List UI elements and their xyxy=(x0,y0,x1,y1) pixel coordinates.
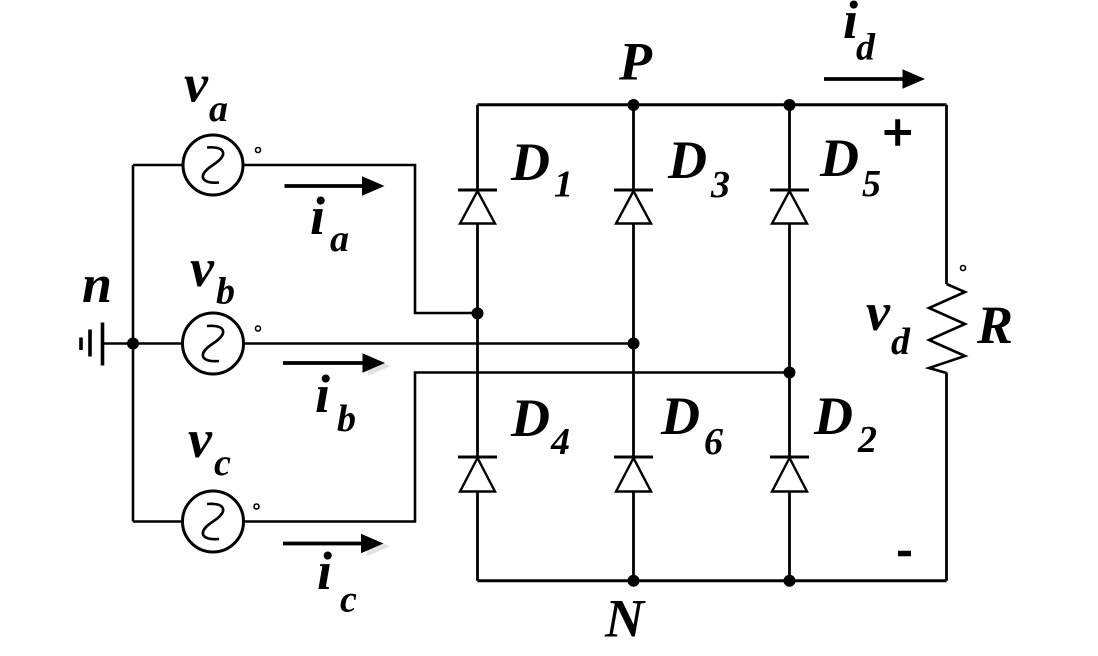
arrow id xyxy=(824,69,925,88)
node n junction xyxy=(127,338,139,350)
svg-text:D: D xyxy=(660,386,700,446)
node B junction (vb to D3 column) xyxy=(628,338,640,350)
svg-text:a: a xyxy=(330,218,349,260)
wire vb to D3 column xyxy=(244,342,634,345)
svg-text:D: D xyxy=(819,128,859,188)
svg-text:3: 3 xyxy=(710,164,730,206)
wire ground to bus xyxy=(103,342,134,345)
diode D5 xyxy=(770,189,809,192)
label id xyxy=(843,0,876,69)
source va xyxy=(183,135,243,195)
label ic xyxy=(317,541,357,621)
svg-text:c: c xyxy=(214,442,231,484)
svg-text:n: n xyxy=(82,254,112,314)
node P junction D3 xyxy=(628,99,640,111)
svg-text:R: R xyxy=(976,295,1013,355)
label D5 xyxy=(819,128,881,205)
resistor R xyxy=(929,284,965,373)
svg-text:d: d xyxy=(856,27,876,69)
wire vc left lead xyxy=(133,520,182,523)
diode D6 xyxy=(614,456,653,459)
label ia xyxy=(310,186,349,260)
plus sign xyxy=(885,119,912,145)
label D4 xyxy=(510,388,570,463)
label vb xyxy=(190,238,235,313)
arrow ib xyxy=(283,353,391,375)
node C junction (vc to D5 column) xyxy=(784,367,796,379)
label D2 xyxy=(813,386,877,461)
arrow ia xyxy=(285,176,385,195)
diode D2 xyxy=(770,456,809,459)
svg-text:D: D xyxy=(510,388,550,448)
svg-text:D: D xyxy=(813,386,853,446)
arrow ic xyxy=(283,534,390,556)
svg-text:c: c xyxy=(340,579,357,621)
svg-text:P: P xyxy=(618,32,653,92)
node P junction D5 xyxy=(784,99,796,111)
minus sign xyxy=(898,551,911,557)
polarity dot va xyxy=(256,148,261,153)
wire va left lead xyxy=(133,164,183,167)
svg-text:N: N xyxy=(604,589,646,649)
wire N rail xyxy=(478,579,947,582)
node N junction D6 xyxy=(628,575,640,587)
label vd xyxy=(866,282,911,363)
wire right load branch xyxy=(945,105,948,581)
source vb xyxy=(183,313,244,374)
svg-text:v: v xyxy=(188,409,213,469)
polarity dot vc xyxy=(254,504,259,509)
node N junction D2 xyxy=(784,575,796,587)
node A junction (va to D1 column) xyxy=(472,307,484,319)
label vc xyxy=(188,409,231,484)
svg-text:b: b xyxy=(216,271,235,313)
ground xyxy=(81,323,103,366)
wire P rail xyxy=(478,103,947,106)
source vc xyxy=(183,491,244,552)
svg-text:v: v xyxy=(190,238,215,298)
label va xyxy=(184,54,228,131)
polarity dot R xyxy=(961,266,966,271)
svg-text:v: v xyxy=(866,282,891,342)
svg-text:2: 2 xyxy=(857,419,877,461)
svg-text:a: a xyxy=(209,88,228,130)
label D3 xyxy=(667,130,730,206)
svg-text:v: v xyxy=(184,54,209,114)
diode D3 xyxy=(614,189,653,192)
label D6 xyxy=(660,386,723,463)
svg-text:i: i xyxy=(310,186,325,246)
svg-text:i: i xyxy=(317,541,332,601)
svg-text:b: b xyxy=(337,398,356,440)
wire vc to D5 column xyxy=(244,373,790,522)
wire va right lead to node A xyxy=(243,165,477,313)
svg-text:D: D xyxy=(667,130,707,190)
wire D5-D2 column xyxy=(788,105,791,581)
svg-text:d: d xyxy=(891,321,911,363)
svg-text:6: 6 xyxy=(704,421,723,463)
label D1 xyxy=(510,132,573,206)
wire vb left lead xyxy=(133,342,182,345)
svg-text:4: 4 xyxy=(550,421,570,463)
wire D1-D4 column xyxy=(476,105,479,581)
polarity dot vb xyxy=(256,326,261,331)
label ib xyxy=(315,364,356,440)
wire D3-D6 column xyxy=(632,105,635,581)
diode D4 xyxy=(458,456,497,459)
svg-text:i: i xyxy=(315,364,330,424)
wire left bus xyxy=(132,165,135,522)
svg-text:1: 1 xyxy=(554,164,573,206)
svg-text:D: D xyxy=(510,132,550,192)
svg-text:5: 5 xyxy=(862,163,881,205)
diode D1 xyxy=(458,189,497,192)
